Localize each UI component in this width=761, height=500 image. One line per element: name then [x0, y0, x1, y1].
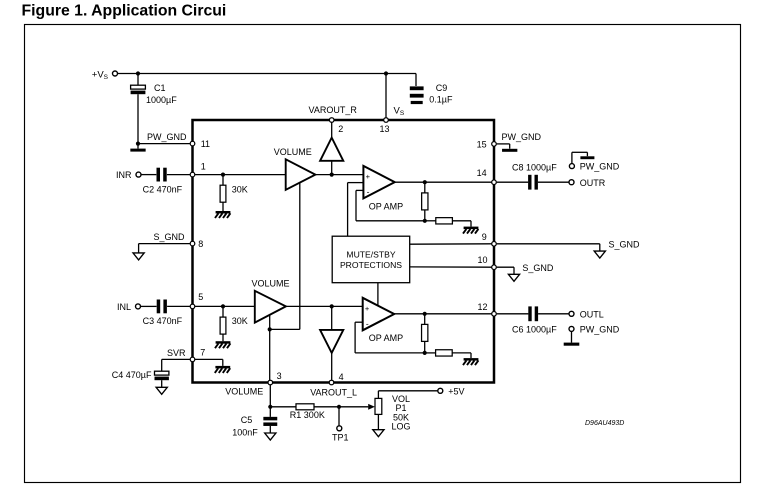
- wire feedback resistor R top stem: [424, 182, 426, 193]
- wire C5 to ground: [269, 426, 271, 433]
- capacitor C4 470uF: [155, 371, 169, 380]
- pin 9 S_GND: [492, 242, 497, 247]
- signal ground under C4: [156, 387, 167, 394]
- junction node varout_l buffer: [330, 304, 334, 308]
- junction node 30K left: [221, 304, 225, 308]
- junction node Vs/C9: [384, 71, 388, 75]
- title Figure 1. Application Circui: [22, 2, 227, 19]
- label pin number 5: [198, 292, 203, 302]
- label VOLUME amp right: [274, 147, 312, 157]
- svg-text:C4 470µF: C4 470µF: [112, 370, 152, 380]
- label pin number 14: [477, 168, 487, 178]
- wire volume L output: [286, 305, 363, 307]
- svg-text:S_GND: S_GND: [522, 263, 554, 273]
- svg-text:C5: C5: [241, 415, 253, 425]
- wire op-amp R inverting feedback: [356, 190, 425, 220]
- svg-text:OUTR: OUTR: [580, 178, 606, 188]
- svg-text:INR: INR: [116, 170, 132, 180]
- wire 30K top stem: [222, 175, 224, 186]
- junction node feedback R bottom: [423, 219, 427, 223]
- internal ground under 30K right: [215, 211, 230, 218]
- wire INL to C3: [141, 305, 157, 307]
- svg-text:30K: 30K: [232, 184, 248, 194]
- wire pin13 stem to supply rail: [385, 74, 387, 118]
- label pin number 3: [277, 371, 282, 381]
- wire R1 to TP1 node: [314, 406, 339, 408]
- label S_GND at pin 9: [609, 239, 641, 249]
- capacitor C3 470nF: [157, 300, 167, 314]
- internal ground op-amp L: [463, 358, 478, 365]
- label PROTECTIONS: [340, 260, 402, 270]
- label OUTL: [580, 309, 604, 319]
- label C6 value: [512, 324, 557, 334]
- label +Vs: [92, 69, 109, 81]
- wire volume L control to pin 3: [269, 315, 271, 381]
- pin 10 S_GND: [492, 265, 497, 270]
- svg-text:2: 2: [338, 124, 343, 134]
- capacitor C6 1000uF: [528, 306, 538, 321]
- label LOG: [391, 421, 410, 431]
- wire C6 to OUTL: [538, 313, 569, 315]
- svg-text:14: 14: [477, 168, 487, 178]
- svg-text:+5V: +5V: [448, 386, 464, 396]
- svg-text:TP1: TP1: [332, 433, 349, 443]
- buffer amplifier VAROUT_L: [320, 330, 343, 353]
- label C8 value: [512, 162, 557, 172]
- svg-text:C6 1000µF: C6 1000µF: [512, 324, 557, 334]
- svg-text:11: 11: [201, 139, 210, 149]
- svg-text:C9: C9: [436, 83, 448, 93]
- label pin number 7: [200, 347, 205, 357]
- volume amplifier right: [286, 159, 316, 190]
- label plus input op-amp R: [366, 172, 371, 181]
- svg-text:1: 1: [201, 161, 206, 171]
- potentiometer P1 50K LOG: [375, 398, 382, 414]
- power ground bar PW_GND at C1: [130, 149, 145, 152]
- label minus input op-amp R: [367, 187, 370, 197]
- power ground bar under C9: [411, 101, 423, 104]
- svg-text:4: 4: [339, 372, 344, 382]
- wire op-amp L inverting feedback: [355, 322, 425, 353]
- label pin number 13: [380, 124, 390, 134]
- wire pin7 SVR left: [162, 359, 190, 371]
- wire pin1 row to volume R input: [195, 174, 286, 176]
- pin 2 VAROUT_R: [329, 118, 334, 123]
- terminal TP1: [337, 426, 342, 431]
- label pin number 8: [198, 239, 203, 249]
- label Vs at pin 13: [394, 106, 405, 118]
- pin 5 INL: [190, 304, 195, 309]
- wire feedback resistor L top stem: [424, 314, 426, 325]
- svg-text:Figure 1. Application Circui: Figure 1. Application Circui: [22, 2, 227, 19]
- pin 1 INR: [190, 172, 195, 177]
- label pin number 4: [339, 372, 344, 382]
- wire TP1 stem: [338, 407, 340, 426]
- terminal +5V: [438, 388, 443, 393]
- wire PW_GND return OUTL stem: [571, 331, 573, 342]
- label S_GND at pin 10: [522, 263, 554, 273]
- label pin number 2: [338, 124, 343, 134]
- terminal +Vs: [113, 71, 118, 76]
- internal ground at SVR pin 7: [215, 366, 230, 373]
- pin 11 PW_GND: [190, 141, 195, 146]
- wire op-amp R output to pin 14: [395, 181, 492, 183]
- wire to gain resistor R: [425, 220, 436, 222]
- terminal OUTL: [569, 311, 574, 316]
- svg-text:15: 15: [477, 139, 487, 149]
- wire pin11 to PW_GND node: [140, 143, 190, 145]
- wire buffer L stem: [331, 306, 333, 330]
- pin 7 SVR: [190, 357, 195, 362]
- wire op-amp L output to pin 12: [394, 313, 492, 315]
- wire P1 bottom to ground: [377, 414, 379, 429]
- svg-text:VOLUME: VOLUME: [274, 147, 312, 157]
- wire C9 branch: [415, 74, 417, 87]
- wire P1 top to +5V: [378, 391, 437, 399]
- label TP1: [332, 433, 349, 443]
- label C1 value 1000uF: [146, 95, 177, 105]
- wire C2 to pin1: [167, 174, 190, 176]
- svg-text:D96AU493D: D96AU493D: [585, 420, 624, 427]
- wire C1 top stem: [137, 74, 139, 86]
- label 30K left: [232, 316, 248, 326]
- svg-text:R1 300K: R1 300K: [290, 410, 325, 420]
- label C9: [436, 83, 448, 93]
- wire node to R1: [270, 406, 296, 408]
- junction node C1/pin11: [136, 142, 140, 146]
- svg-text:LOG: LOG: [391, 421, 410, 431]
- svg-text:10: 10: [478, 255, 488, 265]
- svg-text:S_GND: S_GND: [609, 239, 641, 249]
- svg-text:C1: C1: [154, 83, 166, 93]
- junction node volume control: [268, 327, 272, 331]
- svg-text:VS: VS: [394, 106, 405, 118]
- potentiometer wiper arrow: [368, 404, 375, 410]
- label INL: [117, 302, 131, 312]
- wire pin10 S_GND right: [497, 267, 514, 274]
- buffer amplifier VAROUT_R: [320, 138, 343, 161]
- wire C8 to OUTR: [538, 181, 569, 183]
- label C3 value: [143, 316, 183, 326]
- internal ground under 30K left: [215, 341, 230, 348]
- wire mute control to op-amp L: [377, 283, 379, 306]
- power ground bar at pin 15: [502, 149, 517, 152]
- wire mute control to op-amp R: [348, 183, 364, 237]
- svg-text:C2 470nF: C2 470nF: [143, 184, 183, 194]
- junction node varout_r buffer: [330, 173, 334, 177]
- svg-text:MUTE/STBY: MUTE/STBY: [346, 249, 395, 259]
- wire to gain resistor L: [425, 352, 436, 354]
- pin 3 VOLUME: [268, 380, 273, 385]
- terminal INR: [136, 172, 141, 177]
- signal ground under C5: [265, 433, 276, 440]
- wire pin7 internal ground: [195, 359, 223, 366]
- label OP AMP left: [369, 333, 403, 343]
- gain set resistor op-amp L: [436, 350, 453, 356]
- label plus input op-amp L: [365, 304, 370, 313]
- junction node 30K right: [221, 173, 225, 177]
- label VAROUT_L: [310, 387, 357, 397]
- label PW_GND at C1: [147, 132, 187, 142]
- junction node feedback L bottom: [423, 351, 427, 355]
- svg-text:PW_GND: PW_GND: [502, 132, 542, 142]
- svg-text:OP AMP: OP AMP: [369, 333, 403, 343]
- label INR: [116, 170, 132, 180]
- power ground bar OUTR return: [580, 156, 594, 159]
- drawing code D96AU493D: [585, 420, 624, 427]
- svg-text:PW_GND: PW_GND: [147, 132, 187, 142]
- svg-text:7: 7: [200, 347, 205, 357]
- gain set resistor op-amp R: [436, 218, 453, 224]
- svg-text:5: 5: [198, 292, 203, 302]
- svg-text:C8 1000µF: C8 1000µF: [512, 162, 557, 172]
- label SVR: [167, 348, 186, 358]
- label PW_GND OUTR return: [580, 162, 620, 172]
- label VAROUT_R: [309, 105, 358, 115]
- svg-text:PW_GND: PW_GND: [580, 162, 620, 172]
- svg-text:8: 8: [198, 239, 203, 249]
- pin 15 PW_GND: [492, 142, 497, 147]
- junction node C1/+Vs: [136, 71, 140, 75]
- label +5V: [448, 386, 464, 396]
- svg-text:13: 13: [380, 124, 390, 134]
- junction node TP1: [337, 405, 341, 409]
- label 50K: [393, 412, 409, 422]
- label OP AMP right: [369, 201, 403, 211]
- label pin number 1: [201, 161, 206, 171]
- junction node feedback R top: [423, 180, 427, 184]
- label C4 value: [112, 370, 152, 380]
- label C1: [154, 83, 166, 93]
- label pin number 10: [478, 255, 488, 265]
- wire 30K bottom stem: [222, 202, 224, 211]
- label OUTR: [580, 178, 606, 188]
- terminal PW_GND return OUTL: [569, 326, 574, 331]
- pin 12 OUTL: [492, 312, 497, 317]
- label PW_GND OUTL return: [580, 325, 620, 335]
- junction node C5/R1: [268, 405, 272, 409]
- svg-text:VOLUME: VOLUME: [252, 279, 290, 289]
- svg-text:30K: 30K: [232, 316, 248, 326]
- resistor R1 300K: [296, 404, 314, 410]
- svg-text:SVR: SVR: [167, 348, 186, 358]
- label VOLUME amp left: [252, 279, 290, 289]
- svg-text:S_GND: S_GND: [154, 232, 186, 242]
- svg-text:9: 9: [482, 232, 487, 242]
- label C2 value: [143, 184, 183, 194]
- label C5: [241, 415, 253, 425]
- label pin number 11: [201, 139, 210, 149]
- wire pin12 to C6: [497, 313, 529, 315]
- svg-text:1000µF: 1000µF: [146, 95, 177, 105]
- svg-text:VAROUT_R: VAROUT_R: [309, 105, 358, 115]
- power ground bar OUTL return: [564, 343, 580, 346]
- label minus input op-amp L: [366, 319, 369, 329]
- wire PW_GND return OUTR: [572, 152, 588, 163]
- mute/standby protections block: [332, 236, 410, 283]
- pin 4 VAROUT_L: [329, 380, 334, 385]
- capacitor C1 1000uF: [131, 85, 146, 94]
- svg-text:-: -: [366, 319, 369, 329]
- svg-text:INL: INL: [117, 302, 131, 312]
- wire feedback resistor L bottom stem: [424, 341, 426, 353]
- wire +Vs supply rail: [118, 73, 416, 75]
- signal ground at pin 9: [594, 251, 605, 258]
- wire buffer R to pin 2: [331, 122, 333, 137]
- label S_GND at pin 8: [154, 232, 186, 242]
- op-amp right channel: [363, 166, 394, 199]
- capacitor C5 100nF: [263, 417, 277, 426]
- label pin number 15: [477, 139, 487, 149]
- label R1 300K: [290, 410, 325, 420]
- wire to potentiometer wiper: [339, 406, 368, 408]
- feedback resistor op-amp R: [422, 193, 428, 210]
- svg-text:3: 3: [277, 371, 282, 381]
- wire volume control right: [270, 183, 300, 330]
- svg-text:VAROUT_L: VAROUT_L: [310, 387, 357, 397]
- resistor 30K left channel: [220, 317, 226, 334]
- label P1: [395, 403, 406, 413]
- pin 14 OUTR: [492, 180, 497, 185]
- svg-text:100nF: 100nF: [232, 427, 258, 437]
- svg-text:OP AMP: OP AMP: [369, 201, 403, 211]
- label C9 value 0.1uF: [429, 95, 453, 105]
- svg-text:PW_GND: PW_GND: [580, 325, 620, 335]
- svg-text:OUTL: OUTL: [580, 309, 604, 319]
- wire gain resistor R to ground: [452, 221, 471, 227]
- svg-text:+VS: +VS: [92, 69, 109, 81]
- signal ground at pin 10: [508, 274, 519, 281]
- wire pin15 to PW_GND bar: [497, 144, 510, 149]
- svg-text:+: +: [366, 172, 371, 181]
- label MUTE/STBY: [346, 249, 395, 259]
- svg-text:PROTECTIONS: PROTECTIONS: [340, 260, 402, 270]
- wire pin3 down: [269, 385, 271, 417]
- label VOLUME at pin 3: [225, 387, 263, 397]
- IC block outline U1: [193, 120, 495, 383]
- wire buffer R stem: [331, 161, 333, 175]
- volume amplifier left: [255, 291, 286, 323]
- wire volume R output: [315, 174, 363, 176]
- op-amp left channel: [363, 298, 395, 331]
- label 30K right: [232, 184, 248, 194]
- wire pin9 S_GND right: [497, 244, 600, 251]
- wire 30K left bottom stem: [222, 334, 224, 341]
- pin 8 S_GND: [190, 241, 195, 246]
- label VOL: [392, 394, 410, 404]
- internal ground op-amp R: [463, 227, 478, 234]
- wire buffer L to pin 4: [331, 353, 333, 380]
- svg-text:C3 470nF: C3 470nF: [143, 316, 183, 326]
- capacitor C2 470nF: [157, 168, 167, 182]
- label C5 value: [232, 427, 258, 437]
- wire C4 to ground: [161, 380, 163, 387]
- label PW_GND at pin 15: [502, 132, 542, 142]
- resistor 30K right channel: [220, 185, 226, 202]
- feedback resistor op-amp L: [422, 324, 428, 341]
- wire feedback resistor R bottom stem: [424, 210, 426, 221]
- wire mute box to pin 9: [410, 243, 492, 245]
- wire pin5 row to volume L input: [195, 305, 255, 307]
- capacitor C9 0.1uF: [410, 86, 424, 97]
- wire 30K left top stem: [222, 306, 224, 317]
- wire mute box to pin 10: [410, 266, 492, 268]
- wire pin8 S_GND left: [139, 244, 190, 253]
- signal ground S_GND at pin 8: [133, 253, 144, 260]
- label pin number 12: [478, 302, 488, 312]
- capacitor C8 1000uF: [528, 175, 538, 190]
- terminal OUTR: [569, 180, 574, 185]
- svg-text:12: 12: [478, 302, 488, 312]
- wire gain resistor L to ground: [452, 353, 471, 358]
- wire INR to C2: [141, 174, 156, 176]
- wire C3 to pin5: [167, 305, 190, 307]
- wire pin14 to C8: [497, 181, 529, 183]
- wire C1 bottom to PW_GND node: [137, 94, 139, 148]
- terminal INL: [136, 304, 141, 309]
- svg-text:+: +: [365, 304, 370, 313]
- svg-text:0.1µF: 0.1µF: [429, 95, 453, 105]
- label pin number 9: [482, 232, 487, 242]
- terminal PW_GND return OUTR: [569, 164, 574, 169]
- pin 13 VS: [384, 118, 389, 123]
- signal ground under P1: [373, 430, 384, 437]
- junction node feedback L top: [423, 312, 427, 316]
- svg-text:-: -: [367, 187, 370, 197]
- svg-text:VOLUME: VOLUME: [225, 387, 263, 397]
